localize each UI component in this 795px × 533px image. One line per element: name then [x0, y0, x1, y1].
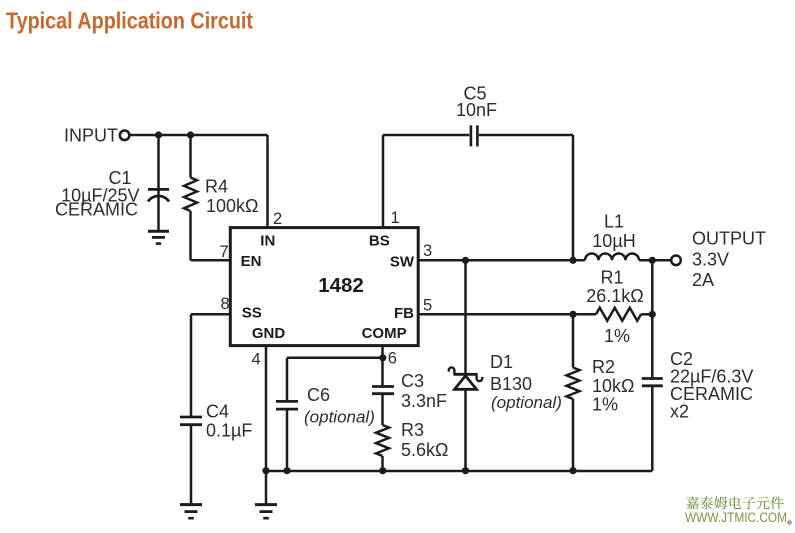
svg-text:D1: D1: [490, 352, 513, 372]
svg-text:8: 8: [221, 295, 230, 313]
svg-text:7: 7: [220, 243, 229, 261]
svg-text:R4: R4: [205, 177, 228, 197]
svg-text:4: 4: [252, 351, 261, 369]
svg-text:10nF: 10nF: [456, 100, 497, 120]
svg-text:IN: IN: [260, 233, 275, 250]
svg-text:1%: 1%: [592, 395, 618, 415]
svg-text:SS: SS: [242, 305, 262, 322]
svg-text:6: 6: [388, 350, 397, 368]
svg-text:GND: GND: [252, 325, 286, 342]
svg-text:L1: L1: [604, 212, 624, 232]
svg-text:FB: FB: [394, 305, 414, 322]
svg-text:3.3nF: 3.3nF: [401, 391, 447, 411]
svg-text:100kΩ: 100kΩ: [206, 196, 259, 216]
svg-text:C4: C4: [206, 402, 229, 422]
svg-text:0.1µF: 0.1µF: [206, 421, 252, 441]
svg-text:C6: C6: [307, 385, 330, 405]
svg-text:1482: 1482: [318, 274, 364, 297]
svg-text:1: 1: [391, 209, 400, 227]
svg-text:R3: R3: [401, 420, 424, 440]
svg-text:26.1kΩ: 26.1kΩ: [586, 286, 644, 306]
svg-text:3: 3: [423, 242, 432, 260]
svg-text:2: 2: [273, 210, 282, 228]
svg-text:BS: BS: [369, 233, 390, 250]
svg-text:EN: EN: [241, 253, 262, 270]
svg-text:C3: C3: [401, 371, 424, 391]
svg-text:OUTPUT: OUTPUT: [692, 229, 766, 249]
svg-text:1%: 1%: [604, 326, 630, 346]
svg-text:R2: R2: [592, 357, 615, 377]
svg-text:INPUT: INPUT: [64, 126, 118, 146]
svg-text:R1: R1: [600, 268, 623, 288]
svg-text:COMP: COMP: [362, 325, 407, 342]
svg-text:SW: SW: [390, 253, 415, 270]
svg-text:5.6kΩ: 5.6kΩ: [401, 440, 448, 460]
svg-text:10kΩ: 10kΩ: [592, 376, 634, 396]
svg-text:10µH: 10µH: [592, 231, 635, 251]
svg-text:3.3V: 3.3V: [692, 250, 729, 270]
svg-text:(optional): (optional): [491, 393, 562, 412]
svg-text:B130: B130: [490, 374, 532, 394]
svg-text:Typical Application Circuit: Typical Application Circuit: [6, 8, 253, 34]
svg-text:2A: 2A: [692, 270, 714, 290]
svg-text:WWW.JTMIC.COM: WWW.JTMIC.COM: [685, 510, 787, 526]
svg-text:x2: x2: [670, 402, 689, 422]
svg-text:5: 5: [423, 297, 432, 315]
svg-text:CERAMIC: CERAMIC: [55, 200, 138, 220]
svg-text:(optional): (optional): [304, 408, 375, 427]
